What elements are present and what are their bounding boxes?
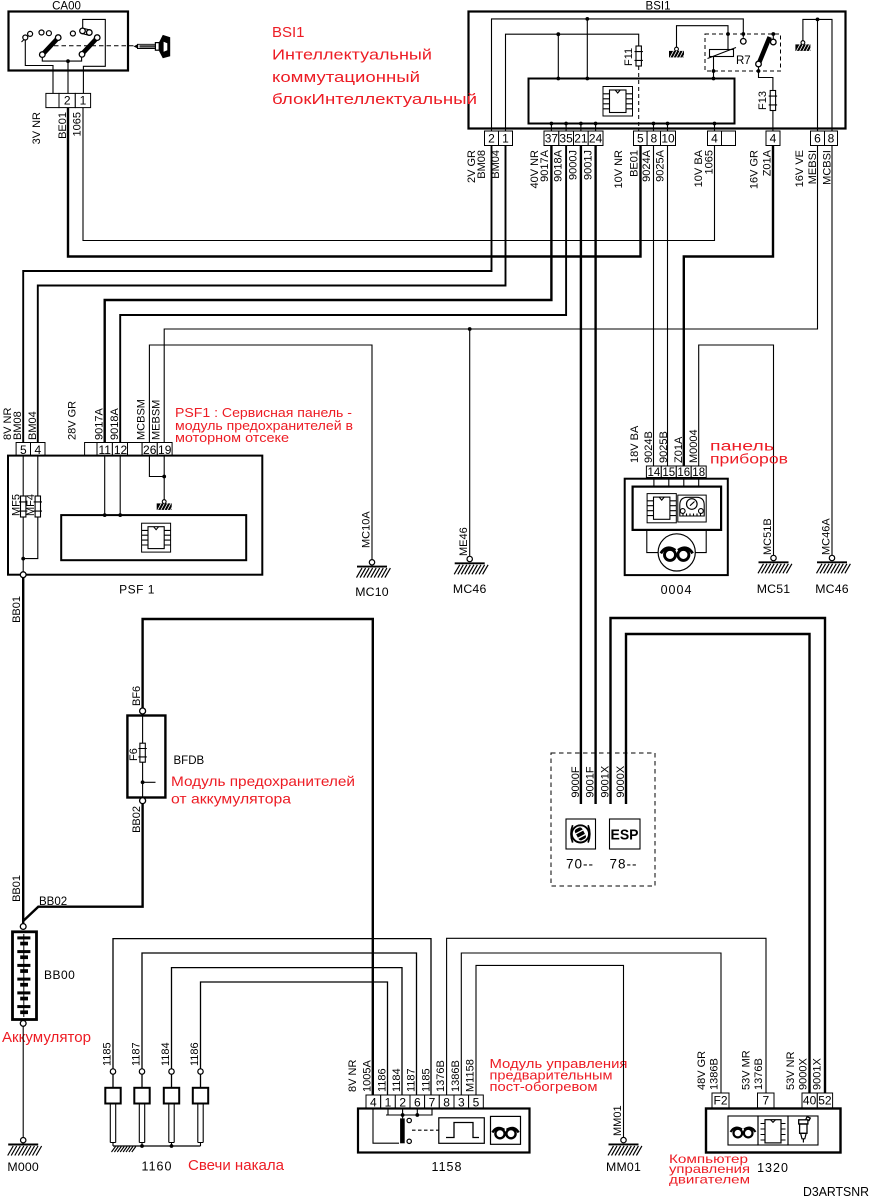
ground MC46 left: [467, 556, 472, 561]
glow plug 3 connector node: [169, 1069, 174, 1074]
svg-text:8: 8: [828, 131, 835, 145]
svg-text:53V MR: 53V MR: [741, 1050, 753, 1090]
svg-text:15: 15: [662, 467, 675, 479]
wire 9018A BSI pin35 to PSF pin12: [120, 146, 566, 443]
glow plug 3 body: [171, 1074, 173, 1088]
svg-text:2: 2: [399, 1095, 406, 1109]
svg-text:2: 2: [488, 131, 495, 145]
wire 1184 glow plug 3 to 1158: [172, 968, 403, 1095]
BSI internal wire pin2 bus: [492, 19, 744, 131]
svg-text:1184: 1184: [160, 1042, 172, 1066]
ground MC10: [369, 560, 374, 565]
svg-text:BB00: BB00: [44, 968, 75, 982]
glow plug 4 body: [200, 1074, 202, 1088]
svg-text:4: 4: [370, 1095, 377, 1109]
panel 0004 box: [625, 479, 728, 575]
svg-text:R7: R7: [736, 55, 751, 67]
svg-text:MC51: MC51: [757, 582, 791, 596]
battery bottom node: [20, 1021, 26, 1027]
svg-text:9000J: 9000J: [568, 150, 580, 180]
wire BE01 CA00 to BSI pin 5: [68, 108, 641, 257]
fuse module BFDB box: [127, 716, 165, 798]
svg-text:1376B: 1376B: [435, 1060, 447, 1092]
svg-text:F13: F13: [757, 91, 769, 110]
svg-text:1065: 1065: [72, 112, 84, 136]
svg-text:Модуль предохранителей: Модуль предохранителей: [171, 773, 355, 789]
wire 1005A BF6 to 1158 pin4: [143, 619, 373, 1095]
svg-text:9018A: 9018A: [109, 408, 121, 440]
fuse MF4: [35, 496, 40, 517]
PSF1 internal ground: [162, 500, 166, 504]
svg-text:9000F: 9000F: [570, 766, 582, 797]
svg-text:MM01: MM01: [606, 1160, 641, 1174]
svg-text:BB01: BB01: [11, 596, 23, 623]
svg-text:Свечи накала: Свечи накала: [188, 1158, 285, 1174]
svg-text:9024B: 9024B: [643, 431, 655, 463]
svg-text:78--: 78--: [610, 857, 638, 872]
wire 9000X to ESP: [626, 634, 810, 1093]
0004 gauge icon: [678, 495, 706, 522]
BSI connector pins 5 8 10: [634, 131, 648, 146]
node BB02 circle: [140, 798, 146, 804]
computer 1320 box: [706, 1109, 841, 1153]
1158 coil box: [491, 1116, 521, 1144]
svg-text:2: 2: [64, 94, 71, 108]
PSF1 connector pins 26 19: [128, 443, 143, 457]
svg-text:10: 10: [661, 131, 675, 145]
svg-text:10V NR: 10V NR: [613, 150, 625, 189]
glow plugs common wire: [113, 1145, 201, 1147]
svg-text:M1158: M1158: [465, 1059, 477, 1092]
svg-text:16: 16: [677, 467, 690, 479]
svg-text:F6: F6: [128, 748, 140, 761]
svg-text:1: 1: [385, 1095, 392, 1109]
0004 IC chip: [647, 494, 676, 523]
1158 internal pin bus: [386, 1109, 433, 1119]
node BB01 circle: [20, 572, 26, 578]
svg-text:пост-обогревом: пост-обогревом: [490, 1080, 598, 1094]
wire 1376B 1158 to 1320: [447, 938, 766, 1095]
BSI1 box: [469, 12, 846, 129]
ignition switch CA00 box: [9, 12, 129, 71]
wire MCBSM PSF pin26 to MC10: [149, 345, 372, 560]
BSI ECU pin stubs with junctions: [551, 124, 714, 132]
svg-text:1185: 1185: [420, 1068, 432, 1092]
0004 coil glyph: [665, 549, 676, 560]
svg-text:9017A: 9017A: [94, 408, 106, 440]
svg-text:9018A: 9018A: [553, 149, 565, 181]
wire 9001X to ESP: [611, 618, 826, 1093]
ESP warn icon box: [566, 819, 596, 849]
svg-text:1184: 1184: [391, 1068, 403, 1092]
svg-text:9017A: 9017A: [539, 149, 551, 181]
svg-text:5: 5: [637, 131, 644, 145]
wire 9025A BSI pin10 to 0004 pin15: [667, 146, 669, 467]
svg-text:16V VE: 16V VE: [794, 150, 806, 187]
ground MC46 right: [829, 555, 834, 560]
wire coil to ECU: [713, 57, 715, 79]
svg-text:BF6: BF6: [131, 686, 143, 706]
BSI1 ECU IC chip: [603, 87, 633, 117]
svg-text:MC51B: MC51B: [762, 518, 774, 555]
svg-text:BM04: BM04: [27, 411, 39, 440]
glow plug 4 connector node: [198, 1069, 203, 1074]
svg-text:BFDB: BFDB: [174, 755, 205, 767]
wire M1158 to MM01: [476, 965, 624, 1137]
svg-text:18V BA: 18V BA: [629, 425, 641, 463]
ESP text box: [610, 819, 641, 849]
svg-text:F2: F2: [713, 1093, 727, 1107]
BSI dashed wire F11 to pin 5: [638, 66, 640, 131]
svg-text:1186: 1186: [377, 1068, 389, 1092]
svg-text:24: 24: [589, 131, 603, 145]
1158 pulse box: [439, 1118, 485, 1144]
wire M0004 0004 pin18 to MC51: [699, 345, 774, 555]
wire 1386B 1158 to 1320: [461, 953, 721, 1095]
svg-text:53V NR: 53V NR: [785, 1051, 797, 1090]
BSI connector pin 4 and blank: [708, 131, 722, 146]
panel 0004 inner box: [633, 487, 722, 530]
module 1158 box: [358, 1109, 530, 1153]
BSI connector pins 6 8: [811, 131, 825, 146]
svg-text:M000: M000: [7, 1160, 39, 1174]
wire PSF pin4 internal: [23, 456, 38, 559]
svg-text:9001X: 9001X: [812, 1058, 824, 1090]
relay R7 coil: [710, 50, 734, 57]
relay switch contacts: [741, 39, 747, 45]
ground MM01: [621, 1137, 626, 1142]
CA00 wire right top contact to pin 1: [83, 19, 106, 93]
svg-text:MF5: MF5: [11, 494, 23, 516]
wire BB01 PSF to battery: [22, 578, 24, 924]
svg-text:5: 5: [473, 1095, 480, 1109]
svg-text:3: 3: [458, 1095, 465, 1109]
battery BB00 box: [13, 932, 37, 1020]
1320 connector pin 7: [758, 1093, 775, 1109]
svg-text:1376B: 1376B: [753, 1058, 765, 1090]
BSI1 ECU inner box: [529, 79, 735, 124]
svg-text:4: 4: [711, 131, 718, 145]
svg-text:9001F: 9001F: [585, 766, 597, 797]
svg-text:BB02: BB02: [39, 896, 67, 908]
0004 lamp wires: [647, 530, 706, 553]
svg-text:7: 7: [762, 1093, 769, 1107]
BSI connector pin 4 Z01A: [766, 131, 780, 146]
svg-text:28V GR: 28V GR: [67, 401, 79, 440]
svg-text:14: 14: [648, 467, 661, 479]
wire 1187 glow plug 2 to 1158: [142, 953, 417, 1095]
svg-text:9000X: 9000X: [615, 765, 627, 797]
1320 connector pin F2: [712, 1093, 729, 1109]
svg-text:3V NR: 3V NR: [31, 112, 43, 144]
BSI connector pins 2 1: [485, 131, 499, 146]
svg-text:MC46A: MC46A: [821, 518, 833, 555]
wire 9001J BSI pin24 to ESP: [594, 146, 596, 805]
1158 relay contact bar: [400, 1118, 405, 1143]
wire PSF pin19 to internal ground: [163, 456, 165, 500]
svg-text:9025B: 9025B: [658, 431, 670, 463]
svg-text:7: 7: [429, 1095, 436, 1109]
wire battery to M000: [22, 1026, 24, 1137]
svg-text:BB02: BB02: [131, 806, 143, 833]
svg-text:8V NR: 8V NR: [347, 1060, 359, 1092]
svg-text:двигателем: двигателем: [669, 1172, 750, 1186]
svg-text:70--: 70--: [566, 857, 594, 872]
svg-text:9000X: 9000X: [798, 1058, 810, 1090]
CA00 right floating contact: [70, 31, 75, 36]
BSI internal wire pin1 to F11: [506, 34, 639, 131]
svg-text:MC46: MC46: [453, 582, 487, 596]
svg-text:1187: 1187: [131, 1042, 143, 1066]
CA00 left contact prong: [22, 36, 28, 42]
svg-text:MF4: MF4: [25, 494, 37, 516]
svg-text:9025A: 9025A: [655, 149, 667, 181]
svg-text:MC10: MC10: [355, 585, 389, 599]
svg-text:6: 6: [414, 1095, 421, 1109]
BSI internal ground 2: [801, 41, 805, 45]
svg-text:52: 52: [818, 1093, 832, 1107]
svg-text:1186: 1186: [189, 1042, 201, 1066]
CA00 left switch blade: [43, 39, 58, 55]
svg-text:PSF 1: PSF 1: [119, 583, 155, 597]
1320 IC icon box: [758, 1116, 788, 1145]
svg-text:F11: F11: [623, 48, 635, 66]
CA00 key dashed line: [54, 45, 134, 47]
svg-text:моторном отсеке: моторном отсеке: [175, 430, 289, 445]
battery plates: [23, 934, 25, 1017]
PSF1 connector pins 11 12: [85, 443, 97, 457]
wire 1185 glow plug 1 to 1158: [113, 939, 431, 1095]
svg-text:1065: 1065: [704, 150, 716, 174]
svg-text:Аккумулятор: Аккумулятор: [2, 1030, 91, 1046]
PSF1 box: [8, 456, 262, 575]
CA00 left floating contacts: [39, 30, 44, 35]
wire MEBSM PSF pin19 to BSI pin6: [164, 146, 817, 443]
wire 9017A BSI pin37 to PSF pin11: [105, 146, 552, 443]
wire 1186 glow plug 4 to 1158: [201, 982, 388, 1095]
svg-text:4: 4: [770, 131, 777, 145]
svg-text:MC46: MC46: [815, 582, 849, 596]
glow plug 2 connector node: [139, 1069, 144, 1074]
svg-text:BM08: BM08: [476, 150, 488, 179]
wire BM08 BSI pin2 to PSF pin5: [23, 146, 491, 443]
PSF1 connector pins 5 4: [16, 443, 30, 457]
fuse F13: [770, 91, 775, 111]
svg-text:Интеллектуальный: Интеллектуальный: [272, 46, 432, 63]
svg-text:приборов: приборов: [710, 452, 788, 467]
0004 pin stubs: [654, 478, 699, 487]
wire grounds pins 6 8: [803, 19, 832, 131]
wire Z01A BSI pin4 to 0004 pin16: [684, 146, 773, 467]
0004 lamp circle: [658, 534, 695, 571]
svg-text:9001J: 9001J: [583, 150, 595, 180]
wire 9024A BSI pin8 to 0004 pin14: [653, 146, 655, 467]
svg-text:37: 37: [545, 131, 559, 145]
svg-text:48V GR: 48V GR: [696, 1051, 708, 1090]
1158 dashed link: [412, 1129, 439, 1131]
battery top node: [20, 924, 26, 930]
svg-text:BM08: BM08: [12, 411, 24, 440]
BFDB internal wire: [142, 716, 144, 798]
wire PSF pin26 joins pin19: [149, 456, 164, 477]
wire F13 to pin 4: [772, 111, 774, 132]
svg-text:MC10A: MC10A: [361, 511, 373, 548]
glow plug 1 connector node: [110, 1069, 115, 1074]
BFDB junction stub: [141, 780, 145, 784]
svg-text:18: 18: [692, 467, 705, 479]
CA00 wire common to pin 2: [67, 61, 69, 93]
svg-text:35: 35: [559, 131, 573, 145]
CA00 wire blade commons: [42, 57, 81, 61]
svg-text:1005A: 1005A: [362, 1060, 374, 1092]
svg-text:BB01: BB01: [11, 875, 23, 902]
svg-text:1: 1: [502, 131, 509, 145]
fuse MF5: [21, 496, 26, 517]
svg-text:0004: 0004: [661, 583, 693, 597]
relay switch blade: [759, 37, 770, 63]
wire coil to ground: [677, 26, 729, 50]
key symbol: [134, 44, 139, 49]
svg-text:1320: 1320: [757, 1161, 789, 1175]
1158 connector pins: [366, 1095, 381, 1109]
svg-text:8: 8: [443, 1095, 450, 1109]
svg-text:Z01A: Z01A: [673, 436, 685, 463]
1158 feed wire pin4 to contact: [373, 1109, 399, 1144]
svg-text:ME46: ME46: [458, 527, 470, 556]
svg-text:21: 21: [574, 131, 588, 145]
svg-text:BE01: BE01: [629, 150, 641, 177]
BSI internal wire to ECU 2: [557, 34, 559, 78]
wire MCBSI BSI pin8 to MC46: [831, 146, 833, 556]
CA00 wire left contact to empty pin: [25, 40, 53, 93]
svg-text:1386B: 1386B: [709, 1058, 721, 1090]
svg-text:D3ARTSNR: D3ARTSNR: [803, 1185, 869, 1198]
svg-text:Z01A: Z01A: [762, 149, 774, 176]
1320 connector pins 40 52: [802, 1093, 817, 1109]
svg-text:от аккумулятора: от аккумулятора: [171, 791, 291, 807]
svg-text:MM01: MM01: [612, 1105, 624, 1136]
ESP dashed box: [551, 753, 655, 886]
0004 connector pins 14 15 16 18: [646, 466, 661, 478]
1320 injector icon box: [788, 1116, 818, 1145]
svg-text:1158: 1158: [432, 1160, 463, 1174]
PSF1 ECU IC chip: [142, 523, 171, 552]
wire ME46 drop: [469, 329, 471, 556]
svg-text:1187: 1187: [406, 1068, 418, 1092]
ground M000: [21, 1138, 26, 1143]
svg-text:BSI1: BSI1: [272, 24, 305, 41]
CA00 connector pins 2 1: [46, 93, 59, 107]
fuse F11: [636, 46, 641, 66]
svg-text:1185: 1185: [102, 1042, 114, 1066]
wire 1065 CA00 to BSI pin 4: [83, 108, 715, 241]
svg-text:16V GR: 16V GR: [749, 150, 761, 189]
wire 9000J BSI pin21 to ESP: [580, 146, 582, 805]
svg-text:коммутационный: коммутационный: [272, 69, 420, 86]
glow plugs ground hatch: [112, 1147, 136, 1153]
svg-text:M0004: M0004: [688, 429, 700, 463]
BSI internal ground 1: [675, 47, 679, 51]
relay R7 dashed box: [705, 34, 781, 71]
BSI connector pins 37 35 21 24: [544, 131, 559, 146]
wire BM04 BSI pin1 to PSF pin4: [38, 146, 506, 443]
svg-text:MCBSM: MCBSM: [136, 399, 148, 440]
svg-text:1386B: 1386B: [450, 1060, 462, 1092]
svg-text:8: 8: [650, 131, 657, 145]
svg-text:1: 1: [80, 94, 87, 108]
wire PSF pin5 internal: [22, 456, 24, 496]
wire MF5 to BB01 node: [22, 517, 24, 572]
glow plug 2 body: [141, 1074, 143, 1088]
BSI internal wire bus to ECU: [586, 19, 588, 79]
svg-text:40: 40: [803, 1093, 817, 1107]
svg-text:ESP: ESP: [611, 828, 639, 844]
ground MC51: [771, 555, 776, 560]
svg-text:MEBSM: MEBSM: [151, 400, 163, 440]
glow plug 1 body: [112, 1074, 114, 1088]
CA00 right contact pair: [82, 28, 90, 35]
wire PSF pins 11 12 to ECU: [105, 456, 121, 515]
1320 coil icon box: [728, 1116, 758, 1145]
fuse F6: [140, 743, 145, 762]
CA00 right switch blade: [83, 38, 97, 53]
svg-text:блокИнтеллектуальный: блокИнтеллектуальный: [272, 91, 477, 108]
node BF6 top circle: [140, 708, 146, 714]
wire BB02: [23, 804, 142, 921]
svg-text:1160: 1160: [142, 1160, 173, 1174]
svg-text:9001X: 9001X: [600, 765, 612, 797]
svg-text:9024A: 9024A: [641, 149, 653, 181]
PSF1 ECU inner box: [61, 515, 246, 560]
relay switch output wire: [759, 67, 773, 91]
svg-text:6: 6: [814, 131, 821, 145]
